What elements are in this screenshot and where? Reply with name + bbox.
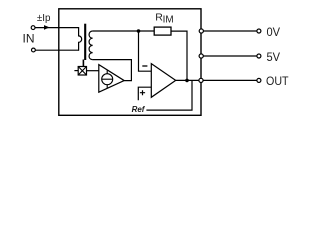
secondary compensation coil bbox=[89, 31, 93, 60]
resistor RIM bbox=[154, 27, 171, 35]
wire OUT bbox=[203, 79, 257, 81]
op-amp minus sign bbox=[142, 65, 147, 67]
terminal OUT outer bbox=[257, 78, 261, 82]
svg-text:IN: IN bbox=[23, 31, 35, 45]
svg-text:±Ip: ±Ip bbox=[37, 13, 51, 24]
device outline box bbox=[59, 9, 201, 116]
op-amp U1 triangle bbox=[151, 64, 175, 98]
wire 0V bbox=[203, 30, 256, 32]
terminal 5V outer bbox=[257, 54, 261, 58]
wire op-amp output bbox=[176, 79, 199, 81]
svg-text:5V: 5V bbox=[267, 50, 281, 64]
hall element X bbox=[78, 67, 86, 76]
A1 symbol horizontal diameter bbox=[102, 78, 113, 80]
op-amp plus sign bbox=[140, 90, 145, 95]
wire junction to inverting input bbox=[139, 31, 152, 71]
output junction node bbox=[185, 79, 189, 83]
svg-text:RIM: RIM bbox=[155, 11, 173, 25]
magnetic core bbox=[84, 24, 86, 60]
wire coil top to RIM bbox=[93, 30, 155, 32]
terminal 5V inner bbox=[199, 54, 203, 58]
primary winding bbox=[79, 27, 82, 51]
wire coil bottom to A1 output bbox=[93, 60, 132, 81]
svg-text:Ref: Ref bbox=[132, 105, 146, 114]
compensation amp A1 triangle bbox=[99, 65, 124, 93]
terminal 0V inner bbox=[199, 29, 203, 33]
svg-text:OUT: OUT bbox=[266, 74, 289, 88]
wire primary top bbox=[35, 27, 78, 29]
terminal OUT inner bbox=[199, 78, 203, 82]
svg-text:0V: 0V bbox=[267, 25, 281, 39]
wire primary bottom bbox=[36, 49, 79, 51]
wire hall to compensation amp bbox=[87, 70, 100, 72]
core to hall link bbox=[82, 60, 84, 67]
current arrow bbox=[44, 25, 50, 30]
wire noninverting input bbox=[138, 87, 151, 100]
junction node bbox=[137, 29, 141, 33]
terminal 0V outer bbox=[257, 29, 261, 33]
wire feedback output to Ref bbox=[146, 80, 192, 110]
hall element bbox=[78, 67, 86, 76]
hall left stub bbox=[74, 70, 78, 72]
terminal IN top bbox=[31, 26, 35, 30]
terminal IN bottom bbox=[32, 48, 36, 52]
A1 current-source symbol circle bbox=[102, 74, 113, 85]
wire 5V bbox=[203, 55, 256, 57]
wire RIM right lead and drop to output node bbox=[171, 31, 187, 80]
A1 symbol vertical ticks bbox=[106, 70, 108, 88]
